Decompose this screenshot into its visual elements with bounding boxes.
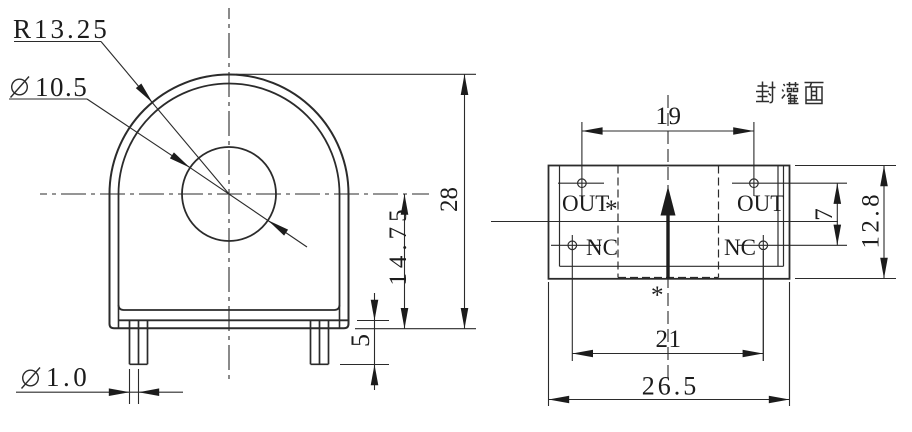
R13.25 leader line <box>101 42 229 195</box>
Dia10.5 label <box>11 77 30 98</box>
pin OUT circle <box>750 179 759 188</box>
Dia10.5 diameter line <box>190 168 307 247</box>
svg-text:12.8: 12.8 <box>858 191 885 249</box>
body inner contour <box>119 84 340 310</box>
dim 28 top arrow <box>461 74 469 95</box>
core window dashed right <box>718 166 720 278</box>
svg-text:OUT: OUT <box>562 191 609 216</box>
dim 21 left arrow <box>572 350 593 358</box>
svg-text:28: 28 <box>436 187 463 212</box>
pin NC left cross lines <box>551 235 601 361</box>
svg-text:*: * <box>605 196 618 223</box>
core hole circle <box>182 147 276 241</box>
svg-text:7: 7 <box>811 208 838 221</box>
dim 19 line <box>582 130 754 132</box>
dia 1.0 left arrow <box>109 388 130 396</box>
dim 19 left arrow <box>582 127 603 135</box>
svg-text:10.5: 10.5 <box>35 72 88 102</box>
dim 26.5 extension right <box>789 282 791 406</box>
left view vertical centerline <box>228 8 230 380</box>
right view inner right edges <box>778 166 784 267</box>
dim 5 line <box>374 293 376 390</box>
right view outer rect <box>549 166 790 279</box>
dim 26.5 extension left <box>548 282 550 406</box>
dim 26.5 right arrow <box>769 396 790 404</box>
svg-text:21: 21 <box>656 326 682 353</box>
svg-text:R13.25: R13.25 <box>13 14 110 44</box>
dim 14.75 bottom arrow <box>401 308 409 329</box>
dim 28 line <box>464 74 466 328</box>
dia 1.0 dim line <box>16 391 183 393</box>
dim 26.5 line <box>549 399 790 401</box>
dim 14.75 top arrow <box>401 194 409 215</box>
Dia10.5 leader line <box>87 99 190 168</box>
dim 7 down arrow <box>834 225 842 246</box>
pin OUT cross lines <box>732 122 847 196</box>
right view center dashed line <box>667 95 669 380</box>
dia 1.0 label <box>22 368 41 389</box>
flange left edge <box>118 305 120 328</box>
dia 1.0 right arrow <box>139 388 160 396</box>
dim 12.8 line <box>883 166 885 279</box>
dim 21 extension right <box>762 251 764 361</box>
right view inner left edge <box>559 166 561 267</box>
svg-text:NC: NC <box>724 235 756 260</box>
char guan <box>782 84 785 99</box>
dim 19 right arrow <box>733 127 754 135</box>
dim 5 lower arrow (up) <box>371 365 379 386</box>
svg-text:*: * <box>651 282 664 309</box>
svg-text:NC: NC <box>586 235 618 260</box>
Dia10.5 leader underline <box>9 98 87 100</box>
right pin pair <box>311 320 329 364</box>
pin OUT* cross lines <box>558 122 604 196</box>
dim 12.8 up arrow <box>880 166 888 187</box>
dia 1.0 extension lines <box>130 369 139 404</box>
R13.25 leader underline <box>14 41 101 43</box>
potting face label (drawn CJK strokes) <box>756 82 824 104</box>
dim 26.5 left arrow <box>549 396 570 404</box>
Dia10.5 lower arrowhead <box>268 220 288 235</box>
dim 5 upper arrow (down) <box>371 300 379 321</box>
dim 21 right arrow <box>743 350 764 358</box>
svg-text:14.75: 14.75 <box>385 204 412 285</box>
pin NC right circle <box>759 241 768 250</box>
svg-text:5: 5 <box>346 334 375 347</box>
R13.25 arrowhead <box>136 84 153 103</box>
core window dashed left <box>617 166 619 278</box>
core window dashed bottom <box>618 277 719 279</box>
polarity arrow <box>666 215 669 279</box>
left pin pair <box>130 320 148 364</box>
dim 14.75 line <box>404 194 406 329</box>
svg-text:19: 19 <box>656 103 682 130</box>
pin NC right cross lines <box>738 235 847 361</box>
extension line body bottom <box>355 328 476 330</box>
right view solid horizontal centerline <box>491 221 838 223</box>
dim 28 bottom arrow <box>461 308 469 329</box>
flange right edge <box>339 305 341 328</box>
body outer contour <box>110 75 349 329</box>
dim 12.8 extension bottom <box>795 278 896 280</box>
svg-text:26.5: 26.5 <box>642 372 700 401</box>
pin OUT* circle <box>578 179 587 188</box>
flange top line <box>119 319 349 321</box>
extension line arch top <box>236 73 476 75</box>
char mian <box>805 83 824 88</box>
left view horizontal centerline <box>40 193 429 195</box>
dim 7 line <box>836 183 838 245</box>
svg-text:1.0: 1.0 <box>46 362 90 392</box>
extension line pin bottom right <box>340 364 389 366</box>
pin NC left circle <box>568 241 577 250</box>
dim 21 line <box>572 353 763 355</box>
dim 12.8 extension top <box>795 165 896 167</box>
extension line flange top right <box>357 320 389 322</box>
svg-text:OUT: OUT <box>737 191 784 216</box>
right view inner bottom edge <box>560 265 784 267</box>
dim 12.8 down arrow <box>880 258 888 279</box>
dim 7 up arrow <box>834 183 842 204</box>
char feng <box>756 82 769 102</box>
Dia10.5 upper arrowhead <box>170 152 190 167</box>
